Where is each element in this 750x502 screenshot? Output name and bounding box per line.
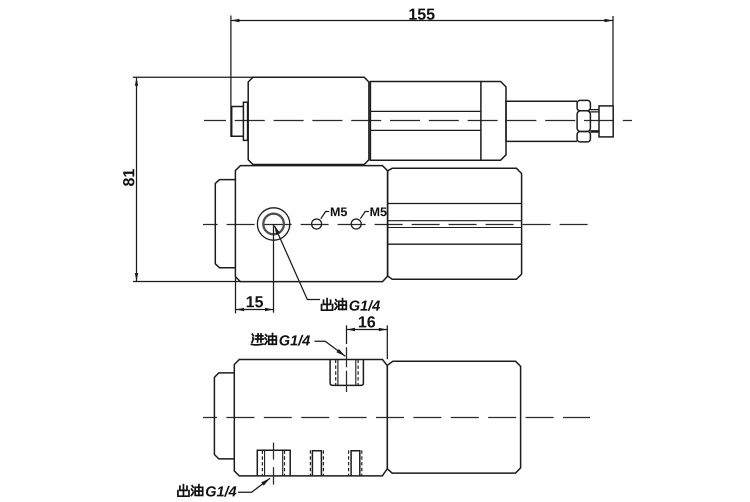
M5 hole circle 2 <box>351 219 361 229</box>
outlet leader front view <box>275 226 321 300</box>
dimension 15 text <box>247 296 263 307</box>
cylinder inner line lower <box>370 129 481 131</box>
inlet port outer <box>330 360 363 386</box>
main valve block <box>235 166 387 282</box>
dimension 16 extension left (port centerline above) <box>346 325 348 344</box>
knob tip flange <box>243 102 247 140</box>
left tab bottom view <box>214 373 234 459</box>
dimension 155 extension line left <box>230 16 232 138</box>
hex nut top facet <box>577 100 590 110</box>
centerline top view <box>204 120 632 122</box>
centerline bottom view <box>203 417 590 419</box>
end fitting block <box>599 106 613 137</box>
dimension 155 text <box>409 9 434 20</box>
hex nut bottom facet <box>577 132 590 142</box>
inlet label: 进油G1/4 <box>251 334 263 345</box>
knob tip small rect <box>232 107 244 137</box>
dimension 155 line <box>231 20 613 22</box>
dimension 15 line <box>236 309 274 311</box>
dimension 81 extension line bottom <box>133 281 241 283</box>
M5 text 2 <box>370 208 386 217</box>
inlet port inner solid lines <box>338 360 356 385</box>
right block bottom view <box>387 361 520 473</box>
right block thin double lines <box>388 221 522 228</box>
left mounting tab <box>215 180 235 268</box>
inlet port thread dashes <box>336 360 358 385</box>
outlet port 1 outer <box>257 450 290 476</box>
dimension 15 extension left <box>235 277 237 314</box>
centerline front view <box>203 224 590 226</box>
inlet port centerline <box>346 347 348 392</box>
outlet port 1 thread dashes <box>262 451 284 476</box>
outlet port circle outer <box>257 208 289 240</box>
dimension 81 arrows <box>135 77 138 85</box>
solenoid cylinder body <box>370 82 481 161</box>
end cap with chamfers <box>481 82 506 161</box>
cylinder inner line upper <box>370 110 481 112</box>
dimension 81 text <box>123 169 134 186</box>
shaft <box>506 101 577 141</box>
adjust knob block <box>248 77 369 164</box>
M5 leader 1 <box>321 212 330 219</box>
M5 leader 2 <box>360 212 369 219</box>
dimension 16 text <box>359 316 375 327</box>
M5 port 2 solid <box>312 451 321 476</box>
dimension 155 extension line right <box>612 16 614 105</box>
M5 port 3 solid <box>351 451 360 476</box>
M5 port 2 dashes <box>310 450 323 476</box>
M5 text 1 <box>331 208 347 217</box>
M5 hole circle 1 <box>312 219 322 229</box>
outlet label bottom: 出油G1/4 <box>178 485 189 497</box>
M5 port 3 dashes <box>349 450 362 476</box>
hex nut middle facet <box>577 111 590 132</box>
outlet port 1 inner solid lines <box>265 451 283 476</box>
outlet port 1 centerline <box>273 443 275 485</box>
right block inner lines <box>388 204 522 245</box>
thin stem double lines <box>590 110 599 133</box>
dimension 16 extension right <box>386 325 388 359</box>
outlet label front view: 出油G1/4 <box>322 299 333 311</box>
dimension 155 arrows <box>231 19 239 22</box>
outlet port circle inner (thread) <box>263 214 284 235</box>
right block front view <box>388 168 522 279</box>
main block bottom view <box>234 360 387 476</box>
outlet leader bottom <box>238 478 270 492</box>
dimension 16 line <box>347 329 388 331</box>
dimension 15 extension right (from port center) <box>273 224 275 313</box>
dimension 81 line <box>136 77 138 281</box>
inlet leader <box>314 341 345 356</box>
dimension 81 extension line top <box>133 76 254 78</box>
